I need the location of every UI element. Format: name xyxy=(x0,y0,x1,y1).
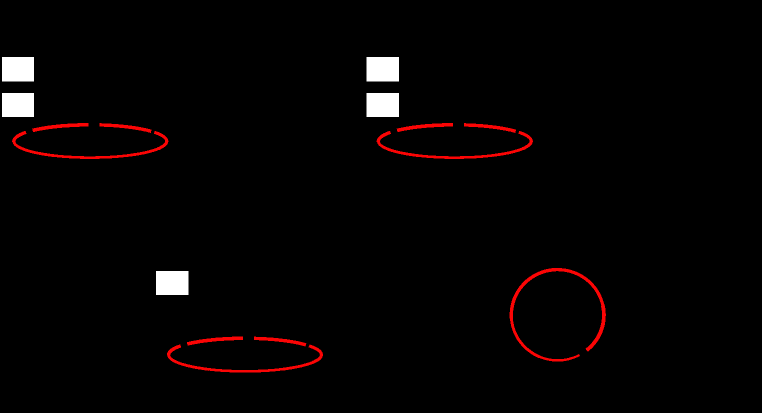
red circle D xyxy=(511,270,604,361)
white box B1 xyxy=(366,57,399,82)
white box C xyxy=(156,271,189,295)
white box A2 xyxy=(2,93,34,117)
white box A1 xyxy=(2,57,34,82)
red ellipse E3 xyxy=(169,338,322,371)
red ellipse E1 xyxy=(14,125,167,158)
white box B2 xyxy=(366,93,399,117)
red ellipse E2 xyxy=(378,125,531,158)
